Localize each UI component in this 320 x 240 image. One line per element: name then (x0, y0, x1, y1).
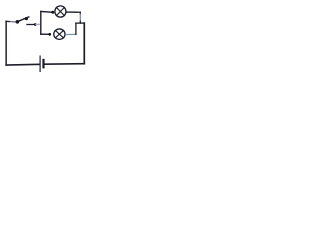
wire: dark stub at top-left corner (6, 20, 9, 22)
lamp L1 circle (55, 6, 66, 17)
junction blob at end of bottom stub (48, 33, 51, 36)
lamp L1 cross stroke 1 (56, 7, 64, 15)
lamp L2 cross stroke 2 (55, 30, 63, 38)
wire: left bus vertical of lamp pair (40, 12, 42, 35)
junction blob where stub meets lamp L1 (51, 11, 54, 14)
lamp L2 circle (54, 29, 65, 39)
wire: faint continuation to left bus (36, 23, 41, 25)
wire: bottom-right horizontal to battery (44, 63, 84, 65)
wire: top branch left stub (41, 11, 53, 14)
wire: top-left horizontal (faint) from corner to switch (6, 20, 16, 23)
wire: bottom branch left stub (41, 33, 50, 35)
wire: main left vertical (5, 21, 7, 65)
wire: bottom branch vertical up to jog (75, 23, 77, 34)
switch S1 lever (open) (18, 17, 29, 22)
lamp L2 cross stroke 1 (55, 30, 63, 38)
wire: upper right vertical dark bottom (79, 21, 81, 23)
lamp L1 cross stroke 2 (56, 7, 64, 15)
wire: bottom branch right stub (light) (66, 33, 76, 35)
wire: jog horizontal joining right bus (76, 22, 84, 24)
switch S1 left terminal dot (16, 20, 20, 24)
wire: upper right vertical dark top (79, 12, 81, 14)
wire: right bus vertical down (83, 23, 85, 64)
wire: upper right vertical (faint) down to jog (79, 14, 81, 22)
battery B1 short thick plate (-) (42, 60, 44, 67)
wire: lower horizontal from switch contact toward node (27, 24, 36, 26)
wire: top branch right stub part to corner (76, 11, 80, 13)
battery B1 long plate (+) (39, 56, 41, 71)
wire: top branch right stub (66, 11, 76, 13)
switch S1 right contact dot (25, 17, 28, 20)
junction blob on wire (34, 23, 37, 26)
wire: bottom-left horizontal to battery (6, 63, 39, 66)
